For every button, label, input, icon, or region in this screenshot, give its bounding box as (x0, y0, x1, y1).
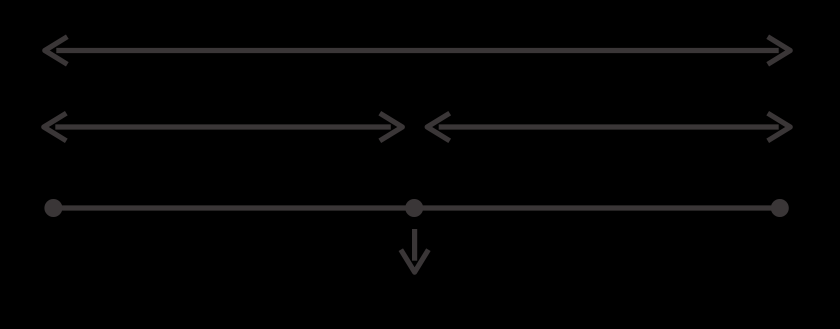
wire: top arrow shaft (56, 48, 778, 53)
arrowhead: middle-left arrow right chevron (380, 113, 403, 141)
middle-left double-headed arrow span (44, 113, 403, 141)
node: middle dot (405, 199, 423, 217)
downward arrow from middle node (401, 229, 429, 272)
baseline wire between end nodes (53, 205, 779, 210)
top double-headed arrow span (45, 37, 790, 65)
arrowhead: middle-left arrow left chevron (44, 113, 67, 141)
arrowhead: middle-right arrow left chevron (427, 113, 450, 141)
arrowhead: top arrow left chevron (45, 37, 68, 65)
wire: middle-right arrow shaft (439, 124, 779, 129)
wire: middle-left arrow shaft (55, 124, 391, 129)
node: right endpoint dot (771, 199, 789, 217)
arrowhead: middle-right arrow right chevron (768, 113, 791, 141)
middle-right double-headed arrow span (427, 113, 790, 141)
arrowhead: top arrow right chevron (768, 37, 791, 65)
node: left endpoint dot (44, 199, 62, 217)
arrowhead: down arrow chevron (401, 250, 429, 273)
wire: down arrow shaft (412, 229, 417, 261)
